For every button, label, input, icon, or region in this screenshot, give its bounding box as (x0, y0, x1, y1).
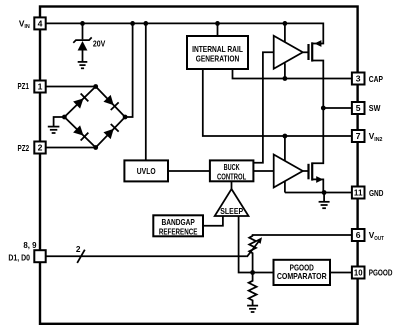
node bridge right (123, 115, 128, 120)
wire lower driver input (253, 170, 273, 172)
pin 11 GND (352, 187, 365, 199)
label VOUT (369, 230, 384, 242)
wire pin 2 to bridge bottom (46, 147, 96, 149)
wire ground stem (323, 193, 325, 202)
pin 1 PZ1 (34, 81, 45, 93)
comparator SLEEP (215, 189, 249, 216)
wire top driver input (253, 52, 273, 163)
svg-text:UVLO: UVLO (137, 166, 156, 176)
svg-text:GENERATION: GENERATION (196, 54, 240, 64)
transistor PMOS gate bar (307, 44, 309, 60)
block BUCK CONTROL (210, 160, 254, 181)
svg-text:CONTROL: CONTROL (217, 171, 246, 181)
IC outline border (40, 7, 358, 324)
wire lower driver supply lower (284, 181, 286, 192)
node rail-gen tap (215, 21, 220, 26)
svg-text:IN2: IN2 (374, 137, 382, 143)
label VIN (19, 18, 30, 30)
wire top driver gate link (303, 51, 310, 53)
node SW (321, 106, 326, 111)
wire GND rail (285, 192, 352, 194)
block UVLO (124, 160, 168, 181)
svg-text:BANDGAP: BANDGAP (161, 217, 195, 227)
label 20V (93, 40, 106, 49)
wire PMOS drain to SW to NMOS drain (312, 61, 323, 164)
label PZ1 (18, 81, 30, 91)
label bus width 2 (76, 244, 81, 254)
wire bridge right to VIN rail (125, 23, 133, 117)
label VIN2 (369, 131, 383, 143)
resistor divider bottom (249, 273, 257, 306)
label GND (369, 188, 383, 198)
node bridge left (62, 115, 67, 120)
svg-text:BUCK: BUCK (224, 162, 240, 172)
wire UVLO feed (145, 23, 147, 160)
node top driver on CAP rail (283, 76, 288, 81)
svg-text:10: 10 (354, 268, 363, 278)
node bridge bottom (93, 145, 98, 150)
svg-text:CAP: CAP (369, 74, 384, 84)
svg-text:2: 2 (38, 143, 43, 153)
label 8 9 (23, 240, 37, 250)
node zener tap (80, 21, 85, 26)
wire VIN rail from pin 4 to PMOS source (46, 23, 323, 43)
svg-text:8, 9: 8, 9 (23, 240, 37, 250)
block INTERNAL RAIL GENERATION (187, 36, 248, 69)
pin 7 VIN2 (352, 130, 365, 142)
node UVLO tap (143, 21, 148, 26)
pin D1 D0 (34, 250, 45, 262)
svg-text:2: 2 (76, 244, 81, 254)
label PGOOD (369, 268, 393, 278)
label PZ2 (18, 143, 30, 153)
pin 6 VOUT (352, 229, 365, 241)
resistor divider top (variable) (249, 236, 256, 273)
wire PGOOD output (330, 272, 352, 274)
svg-text:3: 3 (356, 74, 361, 84)
svg-text:SW: SW (369, 103, 381, 113)
node GND (322, 190, 327, 195)
wire lower driver supply upper (284, 136, 286, 161)
wire top driver supply upper (284, 23, 286, 42)
wire bridge left to ground (54, 117, 65, 126)
pin 10 PGOOD (352, 267, 365, 279)
block BANDGAP REFERENCE (153, 215, 203, 236)
svg-text:GND: GND (369, 188, 383, 198)
ground (divider) (247, 306, 258, 312)
wire pin 1 to bridge top (46, 86, 96, 88)
diode bridge bottom-left (73, 125, 89, 141)
wire UVLO to buck control (168, 170, 210, 172)
ground (power NMOS) (319, 202, 330, 208)
pin 4 VIN (34, 17, 45, 29)
svg-text:6: 6 (356, 230, 361, 240)
transistor NMOS channel bar (311, 162, 313, 180)
op-amp lower driver (274, 155, 303, 188)
wire sleep left leg to bandgap (203, 216, 223, 226)
wire lower driver gate link (303, 170, 310, 172)
pin 5 SW (352, 102, 365, 114)
label SW (369, 103, 381, 113)
arrow NMOS source (316, 176, 323, 183)
svg-text:SLEEP: SLEEP (220, 206, 243, 216)
diode bridge bottom-right (103, 124, 119, 140)
node bridge top (93, 84, 98, 89)
ground (zener) (78, 62, 88, 68)
wire NMOS source to GND rail (312, 179, 323, 192)
node bridge output tap (130, 21, 135, 26)
label D1 D0 (8, 252, 30, 262)
wire buck to sleep stub (231, 181, 233, 189)
wire VOUT to divider top (253, 235, 352, 236)
diode bridge top-right (103, 94, 119, 110)
svg-text:5: 5 (356, 103, 361, 113)
svg-text:1: 1 (38, 82, 43, 92)
svg-text:PZ2: PZ2 (18, 143, 30, 153)
pin 2 PZ2 (34, 142, 45, 154)
svg-text:PGOOD: PGOOD (369, 268, 393, 278)
svg-text:OUT: OUT (374, 236, 384, 242)
svg-text:D1, D0: D1, D0 (8, 252, 30, 262)
node feedback (250, 270, 255, 275)
wire rail-gen feed (217, 23, 219, 36)
svg-text:INTERNAL RAIL: INTERNAL RAIL (192, 44, 243, 54)
wire D1 D0 bus (46, 255, 247, 257)
arrow PMOS source (314, 40, 321, 47)
bus width slash (77, 250, 85, 263)
svg-text:7: 7 (356, 131, 361, 141)
svg-text:11: 11 (354, 188, 363, 198)
svg-text:PZ1: PZ1 (18, 81, 30, 91)
wire feedback to comparator (253, 272, 274, 274)
wire SW stub (323, 107, 351, 109)
svg-text:4: 4 (38, 19, 43, 29)
svg-text:20V: 20V (93, 40, 106, 49)
pin 3 CAP (352, 73, 365, 85)
wiper arrow (247, 235, 264, 256)
node lower driver supply on VIN2 (283, 134, 288, 139)
wire zener stem (82, 23, 84, 39)
wire sleep right leg to feedback node (239, 216, 253, 273)
wire top driver supply lower (284, 63, 286, 78)
diode bridge top-left (73, 93, 89, 109)
svg-text:COMPARATOR: COMPARATOR (277, 271, 327, 281)
block PGOOD COMPARATOR (274, 260, 331, 285)
zener diode 20V (73, 37, 91, 61)
wire bridge diamond (64, 87, 125, 148)
svg-text:REFERENCE: REFERENCE (159, 226, 198, 236)
wire CAP rail (233, 69, 352, 79)
transistor NMOS gate bar (307, 164, 309, 180)
ground (bridge) (48, 127, 60, 133)
wire VIN2 rail (203, 69, 352, 136)
op-amp top driver (274, 36, 303, 69)
node top driver supply tap (283, 21, 288, 26)
label CAP (369, 74, 384, 84)
transistor PMOS channel bar (311, 42, 313, 61)
svg-text:IN: IN (24, 24, 29, 30)
